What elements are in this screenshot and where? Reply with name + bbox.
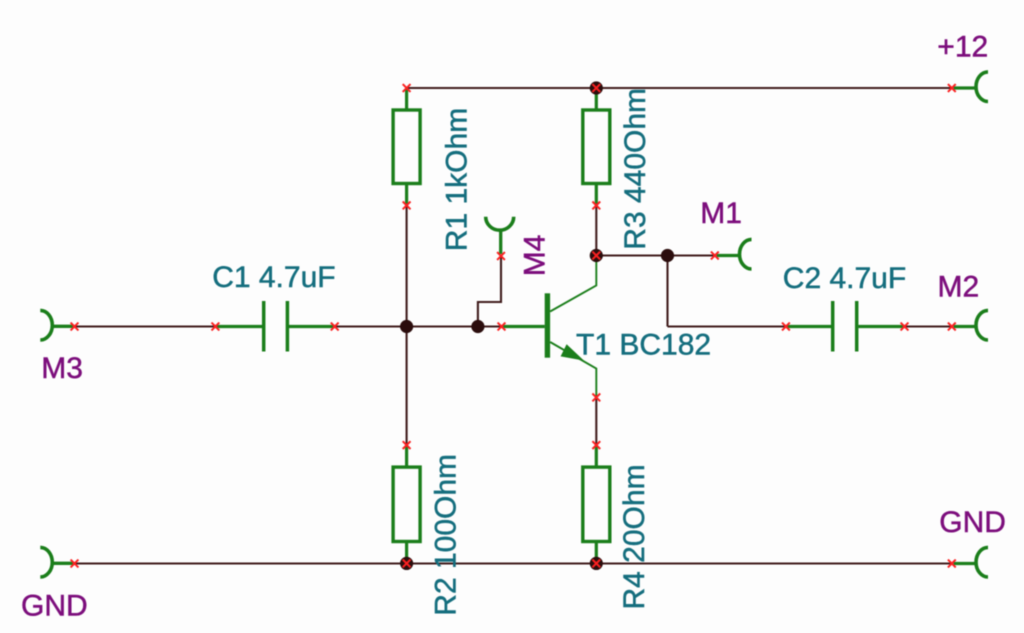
capacitor C2 bbox=[786, 301, 905, 352]
wire: M3 terminal to C1 left pin bbox=[75, 325, 216, 327]
terminal M1 bbox=[717, 239, 752, 269]
pin marker: C1 right bbox=[331, 323, 339, 331]
pin marker: R4 bottom junction bbox=[592, 560, 600, 568]
svg-text:R3 440Ohm: R3 440Ohm bbox=[619, 88, 652, 250]
pin marker: C2 right bbox=[901, 323, 909, 331]
wire: node B to T1 base pin bbox=[478, 325, 502, 327]
pin marker: collector junction bbox=[592, 252, 600, 260]
pin marker: R2 bottom junction bbox=[403, 560, 411, 568]
pin marker: M1 bbox=[711, 252, 719, 260]
wire: top +12 rail bbox=[407, 87, 952, 89]
wire: R1 bottom to main node bbox=[406, 205, 408, 326]
resistor R4 bbox=[583, 445, 610, 563]
pin marker: R2 top bbox=[403, 441, 411, 449]
junction: node B bbox=[471, 320, 484, 333]
wire: C1 right pin to main node bbox=[335, 325, 407, 327]
svg-text:R4 20Ohm: R4 20Ohm bbox=[618, 464, 651, 609]
pin marker: M2 bbox=[948, 323, 956, 331]
svg-text:C1 4.7uF: C1 4.7uF bbox=[212, 261, 335, 294]
junction: main node A bbox=[400, 320, 413, 333]
pin marker: R4 top bbox=[592, 441, 600, 449]
wire: R3 bottom to collector node bbox=[595, 205, 597, 255]
wire: M1 node down to C2 row bbox=[666, 256, 668, 327]
wire: main node to node B bbox=[407, 325, 478, 327]
junction: collector node bbox=[590, 249, 603, 262]
resistor R3 bbox=[583, 88, 610, 205]
terminal M2 bbox=[954, 310, 989, 340]
svg-text:C2 4.7uF: C2 4.7uF bbox=[783, 262, 906, 295]
pin marker: GND left bbox=[71, 560, 79, 568]
pin marker: C2 left bbox=[782, 323, 790, 331]
svg-text:M2: M2 bbox=[938, 270, 980, 303]
terminal +12 bbox=[954, 72, 989, 102]
terminal M3 bbox=[40, 310, 73, 340]
pin marker: M4 bbox=[497, 252, 505, 260]
terminal GND left bbox=[40, 547, 73, 577]
svg-text:+12: +12 bbox=[937, 31, 988, 64]
wire: C2 right pin to M2 terminal bbox=[905, 325, 952, 327]
pin marker: T1 emitter bbox=[592, 394, 600, 402]
resistor R2 bbox=[393, 445, 420, 563]
transistor T1 bbox=[502, 256, 597, 398]
pin marker: C1 left bbox=[212, 323, 220, 331]
svg-text:T1 BC182: T1 BC182 bbox=[576, 329, 711, 362]
wire: main node to R2 top bbox=[406, 327, 408, 446]
capacitor C1 bbox=[215, 301, 334, 352]
pin marker: T1 base bbox=[498, 323, 506, 331]
svg-text:M3: M3 bbox=[41, 352, 83, 385]
junction: R3 top on +12 rail bbox=[590, 81, 603, 94]
wire: collector node to M1 node bbox=[596, 254, 667, 256]
svg-text:GND: GND bbox=[939, 506, 1006, 539]
pin marker: GND right bbox=[948, 560, 956, 568]
pin marker: R3 top junction bbox=[592, 84, 600, 92]
terminal GND right bbox=[954, 547, 989, 577]
svg-text:GND: GND bbox=[21, 589, 88, 622]
pin marker: R3 bottom bbox=[592, 202, 600, 210]
wire: M4 terminal jog down to node B bbox=[478, 256, 501, 327]
pin marker: R1 bottom bbox=[403, 202, 411, 210]
resistor R1 bbox=[393, 88, 420, 205]
wire: bottom GND rail bbox=[75, 562, 952, 564]
svg-text:M4: M4 bbox=[519, 235, 552, 277]
svg-text:M1: M1 bbox=[700, 197, 742, 230]
junction: R4 bottom on GND rail bbox=[590, 557, 603, 570]
wire: corner to C2 left pin bbox=[668, 325, 786, 327]
svg-text:R2 100Ohm: R2 100Ohm bbox=[430, 454, 463, 616]
terminal M4 bbox=[486, 217, 514, 254]
pin marker: M3 bbox=[71, 323, 79, 331]
pin marker: +12 bbox=[948, 84, 956, 92]
junction: M1 node bbox=[661, 249, 674, 262]
svg-text:R1 1kOhm: R1 1kOhm bbox=[441, 108, 474, 251]
pin marker: R1 top bbox=[403, 84, 411, 92]
wire: T1 emitter to R4 top bbox=[595, 397, 597, 445]
wire: M1 node to M1 terminal pin bbox=[668, 254, 715, 256]
junction: R2 bottom on GND rail bbox=[400, 557, 413, 570]
